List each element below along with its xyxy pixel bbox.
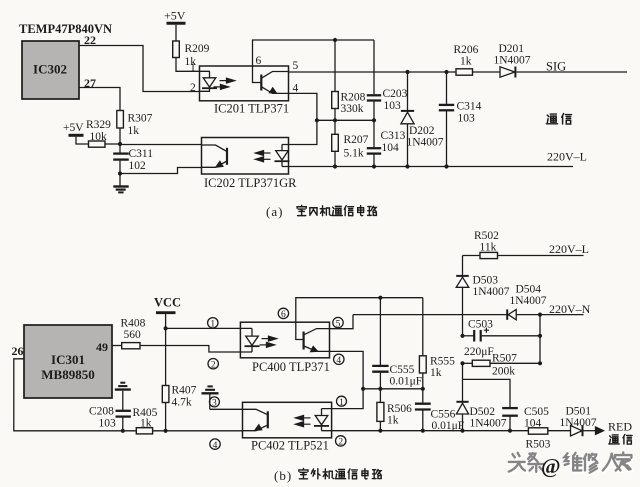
pin circled 3 <box>209 397 219 409</box>
node R307/R329/C311 <box>118 142 122 146</box>
pin 4 label <box>293 83 299 95</box>
wire pin5 rail (SIG net) <box>289 71 457 73</box>
IC201 light arrows <box>214 78 235 89</box>
PC402 phototransistor <box>243 409 268 430</box>
svg-text:2: 2 <box>211 361 216 371</box>
wire R307 bottom to node <box>119 128 121 144</box>
svg-text:R407: R407 <box>172 385 197 397</box>
svg-text:C208: C208 <box>89 406 114 418</box>
+5V supply (top) <box>164 9 186 42</box>
svg-text:4: 4 <box>336 356 341 366</box>
svg-text:103: 103 <box>458 113 476 125</box>
svg-text:C313: C313 <box>381 130 406 142</box>
pin circled 1 (PC400) <box>208 318 218 330</box>
svg-text:RED: RED <box>608 420 632 434</box>
node pin6/R208 <box>333 38 337 42</box>
wire R206 to D201 <box>473 71 501 73</box>
wire R503 to D501 <box>548 430 571 432</box>
svg-text:1k: 1k <box>387 415 399 427</box>
svg-text:1k: 1k <box>140 418 152 430</box>
svg-text:R507: R507 <box>492 353 517 365</box>
resistor R207 5.1k <box>332 120 369 166</box>
220V-N label <box>549 302 591 316</box>
pin 6 label <box>256 55 262 67</box>
capacitor C503 220uF (polarized) <box>463 319 541 359</box>
pin circled 1 (PC402) <box>337 396 347 408</box>
wire pin6 net: up and right to R208/C203 <box>253 40 375 66</box>
IC202 phototransistor <box>202 145 228 167</box>
220V-L label (b) <box>549 242 589 256</box>
svg-text:D202: D202 <box>409 125 435 137</box>
PC400 name label <box>252 360 330 374</box>
wire IC202 top-right pin up to mid rail <box>289 120 317 144</box>
svg-text:220V–L: 220V–L <box>549 242 589 256</box>
通信 label (a) <box>546 114 571 124</box>
svg-text:D503: D503 <box>473 275 499 287</box>
resistor R209 1k <box>173 41 210 68</box>
optocoupler PC402 TLP521 box <box>243 402 332 438</box>
ground (circuit a) <box>113 174 128 193</box>
capacitor C556 0.01uF <box>415 389 464 432</box>
node C311 bottom <box>118 171 122 175</box>
svg-text:10k: 10k <box>90 131 108 143</box>
svg-text:1N4007: 1N4007 <box>473 286 510 298</box>
diode D202 1N4007 <box>401 72 444 167</box>
svg-text:SIG: SIG <box>546 60 566 74</box>
svg-text:VCC: VCC <box>154 296 181 310</box>
svg-text:MB89850: MB89850 <box>41 367 94 382</box>
wire pin22 of IC302 to pin2 of IC201 <box>79 46 200 92</box>
svg-text:5: 5 <box>293 60 299 72</box>
IC201 name label <box>214 102 289 116</box>
svg-text:1N4007: 1N4007 <box>470 418 507 430</box>
wire pin6 net line <box>296 298 423 323</box>
svg-text:4.7k: 4.7k <box>172 397 192 409</box>
svg-text:103: 103 <box>99 418 117 430</box>
svg-text:C505: C505 <box>524 406 549 418</box>
SIG label <box>546 60 566 74</box>
IC201 phototransistor <box>253 66 289 93</box>
resistor R555 1k <box>419 356 455 389</box>
svg-text:11k: 11k <box>480 242 497 254</box>
svg-text:D502: D502 <box>470 406 496 418</box>
node R507 left <box>460 361 464 365</box>
wire node to IC202 collector pin <box>120 144 202 146</box>
220V-L label (a) <box>547 150 587 164</box>
wire R209 to pin1 IC201 <box>176 58 200 72</box>
PC402 name label <box>251 439 329 453</box>
caption (b) <box>274 468 292 483</box>
PC400 light arrows <box>260 336 277 347</box>
svg-text:R206: R206 <box>454 44 479 56</box>
IC201 LED <box>200 71 218 91</box>
diode D201 1N4007 <box>494 43 531 78</box>
rail from R405 to PC402 pin4 <box>153 430 243 432</box>
wire VCC node to PC400 pin1 <box>166 327 241 329</box>
wire PC400 pin4 down to rail and PC402 pin1 <box>330 351 364 408</box>
svg-text:C556: C556 <box>431 409 456 421</box>
svg-text:C203: C203 <box>383 88 408 100</box>
svg-text:C314: C314 <box>457 101 482 113</box>
svg-text:R503: R503 <box>526 439 551 451</box>
optocoupler IC201 TLP371 box <box>200 66 289 101</box>
optocoupler PC400 TLP371 box <box>240 322 329 358</box>
220V-L (b) wire with corner <box>463 255 584 257</box>
node C503 left <box>460 334 464 338</box>
svg-text:220μF: 220μF <box>464 346 494 358</box>
resistor R206 1k <box>454 44 479 75</box>
optocoupler IC202 TLP371GR box <box>202 138 289 175</box>
rail right of PC402 (pin2 net) <box>332 430 529 432</box>
svg-text:PC402 TLP521: PC402 TLP521 <box>251 439 329 453</box>
diode D504 1N4007 <box>507 284 547 320</box>
svg-text:1N4007: 1N4007 <box>560 417 597 429</box>
node 220V-N / C503 branch <box>538 313 542 317</box>
svg-text:(a): (a) <box>266 204 283 219</box>
capacitor C311 102 <box>113 144 153 174</box>
pin circled 2 (PC402) <box>336 436 346 448</box>
wire pin5 to 220V-N rail <box>330 315 354 329</box>
resistor R407 4.7k <box>162 385 196 431</box>
wire R329 to node <box>105 143 120 145</box>
svg-text:330k: 330k <box>341 103 364 115</box>
+5V supply (left) <box>63 122 89 144</box>
mid rail (b) <box>363 388 423 390</box>
pin circled 6 <box>278 308 288 320</box>
svg-text:2: 2 <box>338 438 343 448</box>
svg-text:1N4007: 1N4007 <box>407 137 444 149</box>
wire D201 to SIG <box>516 71 627 73</box>
RED 通信 label <box>608 420 632 434</box>
svg-text:R209: R209 <box>185 43 210 55</box>
svg-text:4: 4 <box>213 441 218 451</box>
pin1 label <box>190 62 196 74</box>
svg-text:R329: R329 <box>86 119 111 131</box>
diode D502 1N4007 <box>456 402 506 431</box>
resistor R506 1k <box>377 389 412 431</box>
inverted ground near IC301 <box>115 383 131 410</box>
diode D503 1N4007 <box>456 256 510 336</box>
inverted ground near PC402 pin3 <box>202 386 219 409</box>
resistor R208 330k <box>332 40 366 120</box>
svg-text:C503: C503 <box>468 319 493 331</box>
svg-text:6: 6 <box>256 55 262 67</box>
svg-text:R502: R502 <box>474 230 499 242</box>
svg-text:R207: R207 <box>344 134 369 146</box>
svg-text:5.1k: 5.1k <box>344 148 364 160</box>
pin 5 label <box>293 60 299 72</box>
wire pin26 left and down to bottom rail <box>14 359 137 431</box>
PC400 phototransistor <box>296 322 330 351</box>
node C503 right <box>538 334 542 338</box>
ic IC301 MB89850 <box>24 325 112 398</box>
svg-text:R506: R506 <box>387 403 412 415</box>
svg-text:R307: R307 <box>128 113 153 125</box>
svg-text:0.01μF: 0.01μF <box>432 420 465 432</box>
svg-text:220V–N: 220V–N <box>549 302 591 316</box>
wire down to R555 (crosses 220V-N) <box>422 298 424 356</box>
svg-text:1N4007: 1N4007 <box>510 295 547 307</box>
svg-text:+5V: +5V <box>63 122 84 134</box>
watermark 头条@维修人家 (embossed) <box>510 454 633 474</box>
pin 49 label <box>96 340 108 354</box>
svg-text:104: 104 <box>382 142 400 154</box>
svg-text:1N4007: 1N4007 <box>494 55 531 67</box>
svg-text:(b): (b) <box>274 468 292 483</box>
bottom rail 220V-L (a) <box>289 166 574 168</box>
svg-text:49: 49 <box>96 340 108 354</box>
IC202 name label <box>204 176 297 190</box>
svg-text:D501: D501 <box>566 406 592 418</box>
resistor R502 11k <box>474 230 499 259</box>
svg-text:@: @ <box>541 454 561 478</box>
wire pin27 of IC302 down to R307 <box>79 88 120 111</box>
svg-text:5: 5 <box>336 319 341 329</box>
IC202 LED <box>275 145 290 167</box>
svg-text:R208: R208 <box>341 92 366 104</box>
svg-text:R408: R408 <box>121 318 146 330</box>
mid rail <box>317 119 374 121</box>
capacitor C313 104 <box>367 120 406 166</box>
svg-text:D504: D504 <box>516 284 542 296</box>
svg-text:2: 2 <box>190 82 196 94</box>
resistor R507 200k <box>463 353 541 378</box>
pin 27 label <box>84 76 96 90</box>
svg-text:220V–L: 220V–L <box>547 150 587 164</box>
wire 220V-N node down to R507 <box>539 315 541 364</box>
PC402 light arrows (pointing left) <box>296 416 311 427</box>
resistor R307 1k <box>117 111 153 138</box>
svg-text:0.01μF: 0.01μF <box>390 376 423 388</box>
resistor R405 1k (in series in rail) <box>133 407 158 434</box>
pin circled 5 <box>333 317 343 329</box>
ic IC302 <box>22 41 79 99</box>
svg-text:TEMP47P840VN: TEMP47P840VN <box>19 22 112 36</box>
pin 22 label <box>84 33 96 47</box>
pin circled 4 (PC402) <box>210 439 220 451</box>
IC202 light arrows (pointing left) <box>256 151 271 162</box>
capacitor C203 103 <box>367 88 408 120</box>
wire R408 to PC400 pin2 (jog) <box>140 346 240 353</box>
pin 26 label <box>12 344 24 358</box>
svg-text:IC301: IC301 <box>51 352 85 367</box>
PC400 LED <box>240 328 259 352</box>
svg-text:1k: 1k <box>430 367 442 379</box>
resistor R408 560 <box>121 318 146 349</box>
VCC supply <box>154 296 181 329</box>
svg-text:200k: 200k <box>492 366 515 378</box>
node VCC / pin1 line <box>164 326 168 330</box>
svg-text:D201: D201 <box>499 43 525 55</box>
caption (a) <box>266 204 283 219</box>
svg-text:4: 4 <box>293 83 299 95</box>
capacitor C505 104 <box>502 406 549 431</box>
wire pin4 down to mid rail <box>289 93 317 120</box>
svg-text:+5V: +5V <box>164 9 186 23</box>
svg-text:26: 26 <box>12 344 24 358</box>
svg-text:560: 560 <box>124 329 142 341</box>
220V-N rail <box>353 314 584 316</box>
IC302 part number label <box>19 22 112 36</box>
svg-text:3: 3 <box>212 399 217 409</box>
node C314 top on SIG rail <box>444 70 448 74</box>
svg-text:IC201 TLP371: IC201 TLP371 <box>214 102 289 116</box>
C555 branch <box>372 298 422 389</box>
capacitor C314 103 <box>439 72 482 167</box>
svg-text:1k: 1k <box>460 56 472 68</box>
svg-text:6: 6 <box>281 310 286 320</box>
node R407 bottom on rail <box>164 429 168 433</box>
resistor R503 <box>526 428 551 451</box>
svg-text:PC400 TLP371: PC400 TLP371 <box>252 360 330 374</box>
diode D501 1N4007 <box>560 406 597 437</box>
node D202 top on SIG rail <box>405 70 409 74</box>
svg-text:IC202 TLP371GR: IC202 TLP371GR <box>204 176 297 190</box>
wire node to IC202 emitter pin (jog) <box>120 168 202 174</box>
node C208 on rail <box>121 429 125 433</box>
svg-text:C555: C555 <box>390 364 415 376</box>
svg-text:103: 103 <box>384 100 402 112</box>
pin2 label <box>190 82 196 94</box>
wire ground to PC402 pin3 <box>210 408 243 410</box>
svg-text:1: 1 <box>190 62 196 74</box>
pin circled 4 (PC400) <box>334 354 344 366</box>
svg-text:IC302: IC302 <box>33 62 67 77</box>
wire VCC node down to R407 (crosses pin49 line) <box>165 328 167 385</box>
PC402 LED <box>314 409 332 431</box>
svg-text:102: 102 <box>129 160 147 172</box>
svg-text:C311: C311 <box>129 148 154 160</box>
svg-text:1k: 1k <box>128 125 140 137</box>
svg-text:1: 1 <box>210 320 215 330</box>
wire D501 to RED arrow <box>584 430 596 432</box>
pin circled 2 (PC400) <box>208 359 218 371</box>
wire pin49 to R408 <box>112 345 122 347</box>
wire D503 node down, T to C505 and D502 <box>463 363 511 407</box>
svg-text:1: 1 <box>339 398 344 408</box>
capacitor C208 103 <box>89 406 131 431</box>
resistor R329 10k <box>86 119 111 147</box>
node C555 top <box>378 296 382 300</box>
wire down to C203 <box>373 40 375 94</box>
svg-text:R555: R555 <box>430 356 455 368</box>
